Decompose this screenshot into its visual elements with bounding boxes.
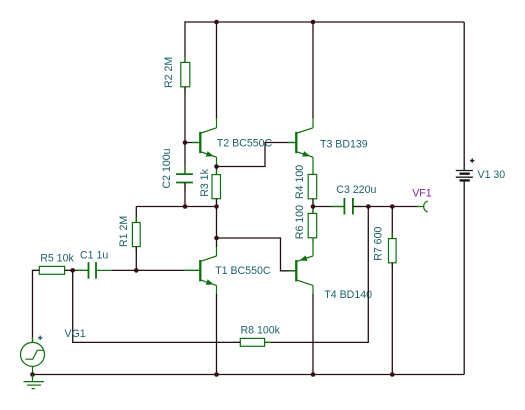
wire T3 base lead [288, 142, 296, 144]
wire left branch from top rail down to R2 [184, 21, 186, 62]
capacitor C1 [76, 262, 112, 279]
wire mid-left horizontal (R1 top to R3 bottom) [136, 206, 216, 208]
wire R5 right to C1 [65, 269, 89, 271]
wire T4 base lead [289, 270, 297, 272]
node R7 top junction [390, 204, 395, 209]
wire T4 collector down to bottom rail [312, 294, 314, 375]
wire T3 collector up to top rail [312, 22, 314, 118]
svg-text:T2 BC550C: T2 BC550C [217, 138, 273, 150]
svg-text:C2 100u: C2 100u [161, 148, 173, 188]
svg-text:VF1: VF1 [412, 188, 432, 200]
wire C2 bottom to mid-left node [184, 183, 186, 207]
transistor T1 (BC550C NPN) [200, 246, 216, 295]
wire T2 base tap down to C2 [184, 143, 186, 175]
node bottom rail T4 collector [311, 372, 316, 377]
node output junction [311, 204, 316, 209]
wire T2 collector up to top rail [216, 22, 218, 118]
node T2 emitter junction [214, 164, 219, 169]
capacitor C3 [331, 198, 362, 215]
wire R2 bottom to T2 base tap [184, 87, 186, 143]
svg-text:R6 100: R6 100 [294, 205, 306, 239]
wire link T1 collector to T4 base [217, 238, 297, 271]
node T1 collector junction [214, 236, 219, 241]
wire R3 bottom down to T1 collector node [216, 199, 218, 238]
svg-text:R7 600: R7 600 [373, 227, 385, 261]
transistor T2 (BC550C NPN) [200, 117, 216, 167]
wire C1 to T1 base [112, 269, 200, 271]
svg-text:R4 100: R4 100 [294, 165, 306, 199]
resistor R5 [33, 266, 70, 274]
node R5/C1 feedback junction [70, 268, 75, 273]
svg-text:C1 1u: C1 1u [80, 250, 108, 262]
wire VG1 top to R5 [33, 270, 40, 342]
capacitor C2 [176, 166, 193, 191]
node top rail right junction [311, 20, 316, 25]
resistor R4 [308, 174, 317, 203]
resistor R3 [212, 167, 221, 204]
node bottom rail VG1/ground [30, 372, 35, 377]
wire T1 base lead [184, 269, 200, 271]
battery V1 [456, 22, 473, 375]
wire link T2 emitter to T3 base [217, 143, 297, 167]
node top rail left junction [214, 20, 219, 25]
wire R4 bottom to output node [312, 199, 314, 214]
wire feedback vertical [265, 207, 369, 343]
svg-text:T3 BD139: T3 BD139 [320, 138, 368, 150]
transistor T3 (BD139 NPN) [296, 117, 313, 174]
svg-text:V1 30: V1 30 [478, 169, 506, 181]
svg-text:T4 BD140: T4 BD140 [324, 289, 372, 301]
wire feedback left run to input node [73, 270, 241, 342]
svg-text:R3 1k: R3 1k [199, 168, 211, 196]
probe VF1 [417, 201, 428, 212]
transistor T4 (BD140 PNP) [296, 255, 313, 295]
svg-text:T1 BC550C: T1 BC550C [215, 265, 271, 277]
resistor R8 [233, 338, 271, 346]
svg-text:R5 10k: R5 10k [40, 253, 74, 265]
svg-text:R1 2M: R1 2M [118, 216, 130, 247]
resistor R7 [389, 207, 397, 375]
ground [24, 375, 45, 389]
wire T2 base lead [185, 142, 200, 144]
label VG1 plus [38, 336, 42, 340]
node R3 to mid wire [214, 204, 219, 209]
svg-text:R8 100k: R8 100k [241, 325, 281, 337]
wire C3 right to VF1 [353, 206, 419, 208]
label battery plus [470, 158, 474, 162]
resistor R1 [132, 207, 140, 271]
wire output node to C3 [313, 206, 344, 208]
resistor R6 [308, 209, 317, 244]
node bottom rail R7 [390, 372, 395, 377]
svg-text:VG1: VG1 [65, 328, 86, 340]
wire top rail [185, 21, 465, 23]
svg-text:R2 2M: R2 2M [163, 57, 175, 88]
node T2 base tap junction [183, 140, 188, 145]
resistor R2 [181, 57, 190, 93]
node C2 to mid wire [183, 204, 188, 209]
node feedback tap junction [366, 204, 371, 209]
wire bottom rail [33, 374, 465, 376]
wire T1 collector up to node [216, 238, 218, 247]
generator VG1 [21, 337, 45, 375]
wire T1 emitter down to bottom rail [216, 294, 218, 375]
node R1 bottom junction [134, 268, 139, 273]
node bottom rail T1 emitter [214, 372, 219, 377]
wire R6 bottom to T4 emitter [312, 238, 314, 256]
svg-text:C3 220u: C3 220u [336, 184, 376, 196]
